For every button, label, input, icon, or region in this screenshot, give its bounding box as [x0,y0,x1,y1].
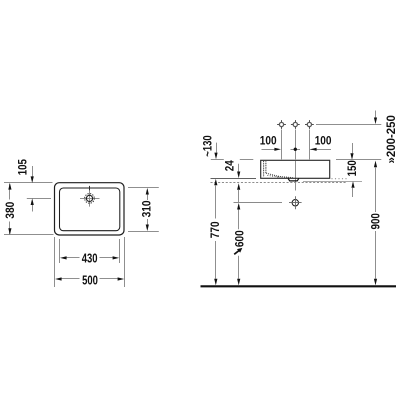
svg-text:~130: ~130 [202,135,215,157]
svg-text:100: 100 [315,134,332,148]
svg-text:770: 770 [209,221,222,238]
svg-text:600: 600 [234,230,247,247]
svg-text:500: 500 [82,272,98,287]
svg-text:430: 430 [82,251,98,266]
svg-text:»200-250: »200-250 [385,115,398,164]
svg-text:900: 900 [369,213,382,229]
svg-text:105: 105 [17,159,30,176]
svg-text:310: 310 [141,200,154,217]
svg-text:24: 24 [224,160,237,171]
svg-text:150: 150 [346,160,359,176]
svg-text:380: 380 [4,202,17,219]
svg-text:100: 100 [260,134,277,148]
